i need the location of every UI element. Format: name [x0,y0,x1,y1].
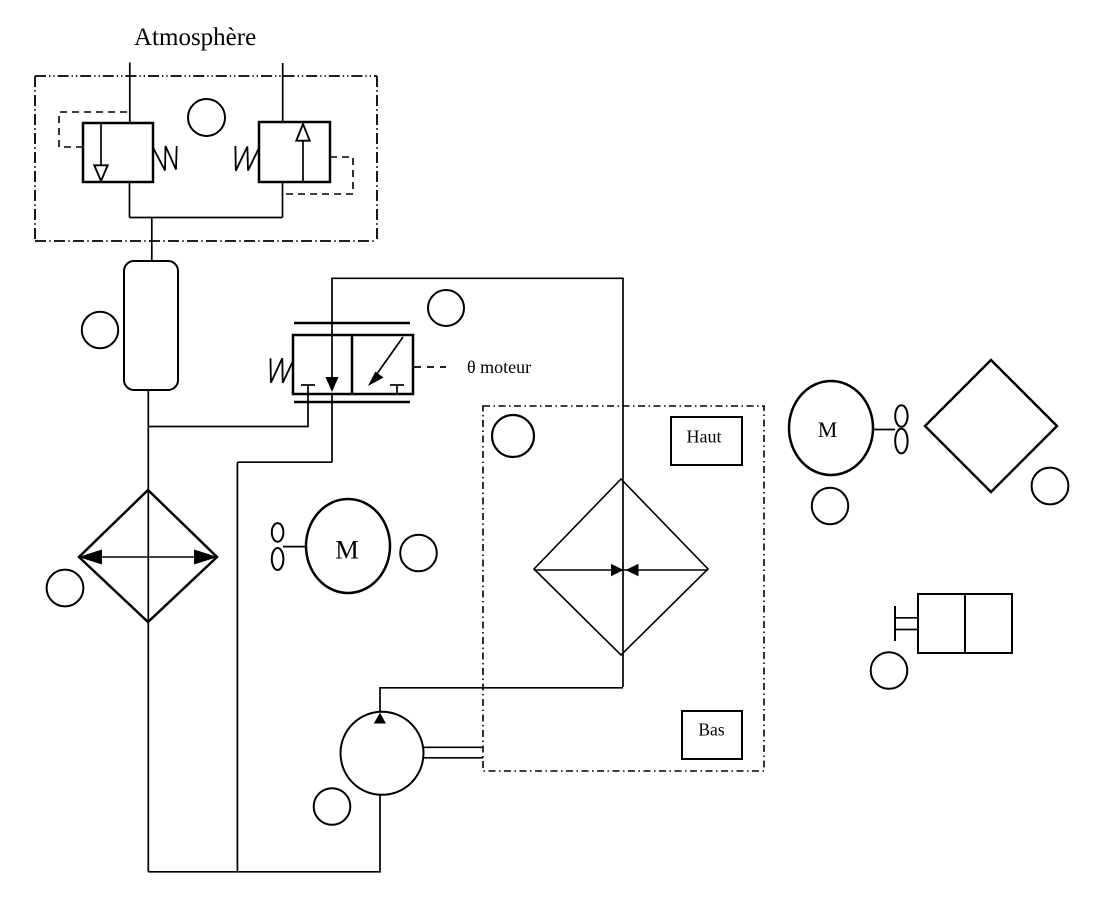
wire: V2 outlet down [282,182,284,218]
fan (condenser blower) [895,405,907,453]
gauge circle (filter) [82,312,118,348]
wire: pump suction [379,794,381,872]
valve V2 pilot line (dashed) [284,157,353,194]
valve V1 (exhaust relief) body [83,123,153,182]
wire: V1 outlet down [129,182,131,218]
fan shaft [283,546,306,548]
gauge circle (condenser unit) [492,415,534,457]
evaporator arrowhead right [194,550,218,565]
cylinder rod end bar [894,606,896,641]
svg-text:Bas: Bas [698,720,724,740]
fan (evaporator blower) [272,523,284,570]
node box Bas [682,711,742,759]
wire: filter to bottom bus [147,390,149,872]
3/2 valve bottom plate [294,401,410,404]
svg-text:Atmosphère: Atmosphère [134,24,256,51]
valve V2 (intake relief) body [259,122,330,182]
wire: discharge horizontal [380,687,623,689]
M2 fan shaft [873,429,895,431]
cylinder body [918,594,1012,653]
wire: atmosphere line left [129,63,131,124]
3/2 valve spring [271,358,294,383]
wire: port1 to main line [148,426,308,428]
3/2 valve thermal pilot (dashed) [414,366,446,368]
3/2 valve divider [351,335,354,394]
wire: valve port1 down [307,394,309,427]
3/2 valve body [293,335,413,394]
svg-text:Haut: Haut [687,427,722,447]
valve V1 spring [154,146,177,171]
valve V1 pilot line (dashed) [59,112,127,147]
svg-text:M: M [818,417,838,442]
valve position 1 blocked port [301,385,315,394]
wire: valve port2 down [331,394,333,462]
gauge circle (expansion) [1032,468,1069,505]
valve position 2 flow arrow [368,337,403,386]
pump shaft double line [423,747,483,758]
svg-text:M: M [335,535,359,565]
wire: valve top riser [331,278,333,336]
motor M2 [789,381,873,475]
svg-text:θ moteur: θ moteur [467,357,531,377]
condenser diamond (center) [534,479,708,655]
pump flow triangle [374,713,386,724]
condenser arrowhead left (pointing right) [611,564,624,577]
gauge circle (3/2 valve) [428,290,464,326]
filter/dryer vessel [124,261,178,390]
enclosure: atmosphere valve unit (dash-dot box) [35,76,377,241]
valve position 2 blocked port [390,385,404,394]
motor M1 [306,499,390,593]
valve V2 flow arrow [296,124,309,182]
wire: pump discharge riser [379,687,381,712]
wire: second bus vertical [236,462,238,872]
evaporator flow arrow line [79,556,217,558]
cylinder rod double line [895,618,919,630]
wire: manifold to filter [151,218,153,263]
valve position 1 flow arrow [326,335,339,392]
wire: manifold horizontal [130,217,283,219]
gauge circle (pump) [314,788,351,825]
enclosure: condenser unit (dash-dot box) [483,406,764,771]
valve V2 spring [235,146,258,171]
evaporator arrowhead left [79,550,103,565]
wire: top loop horizontal [331,277,623,279]
wire: port2 horizontal [237,461,332,463]
gauge circle (M2) [812,488,848,524]
node box Haut [671,417,742,465]
gauge circle (M1) [400,535,437,572]
evaporator diamond (left) [79,490,217,622]
wire: atmosphere line right [282,63,284,122]
condenser arrowhead right (pointing left) [626,564,639,577]
valve V1 flow arrow [94,124,107,181]
condenser flow line [534,569,708,571]
wire: condenser drop vertical [622,278,624,687]
wire: bottom bus [148,871,380,873]
gauge circle (evaporator) [47,570,84,607]
3/2 valve top plate [294,322,410,325]
gauge circle (atmosphere unit) [188,99,225,136]
expansion device diamond (right) [925,360,1057,492]
compressor pump body [341,712,424,795]
gauge circle (cylinder) [871,652,908,689]
